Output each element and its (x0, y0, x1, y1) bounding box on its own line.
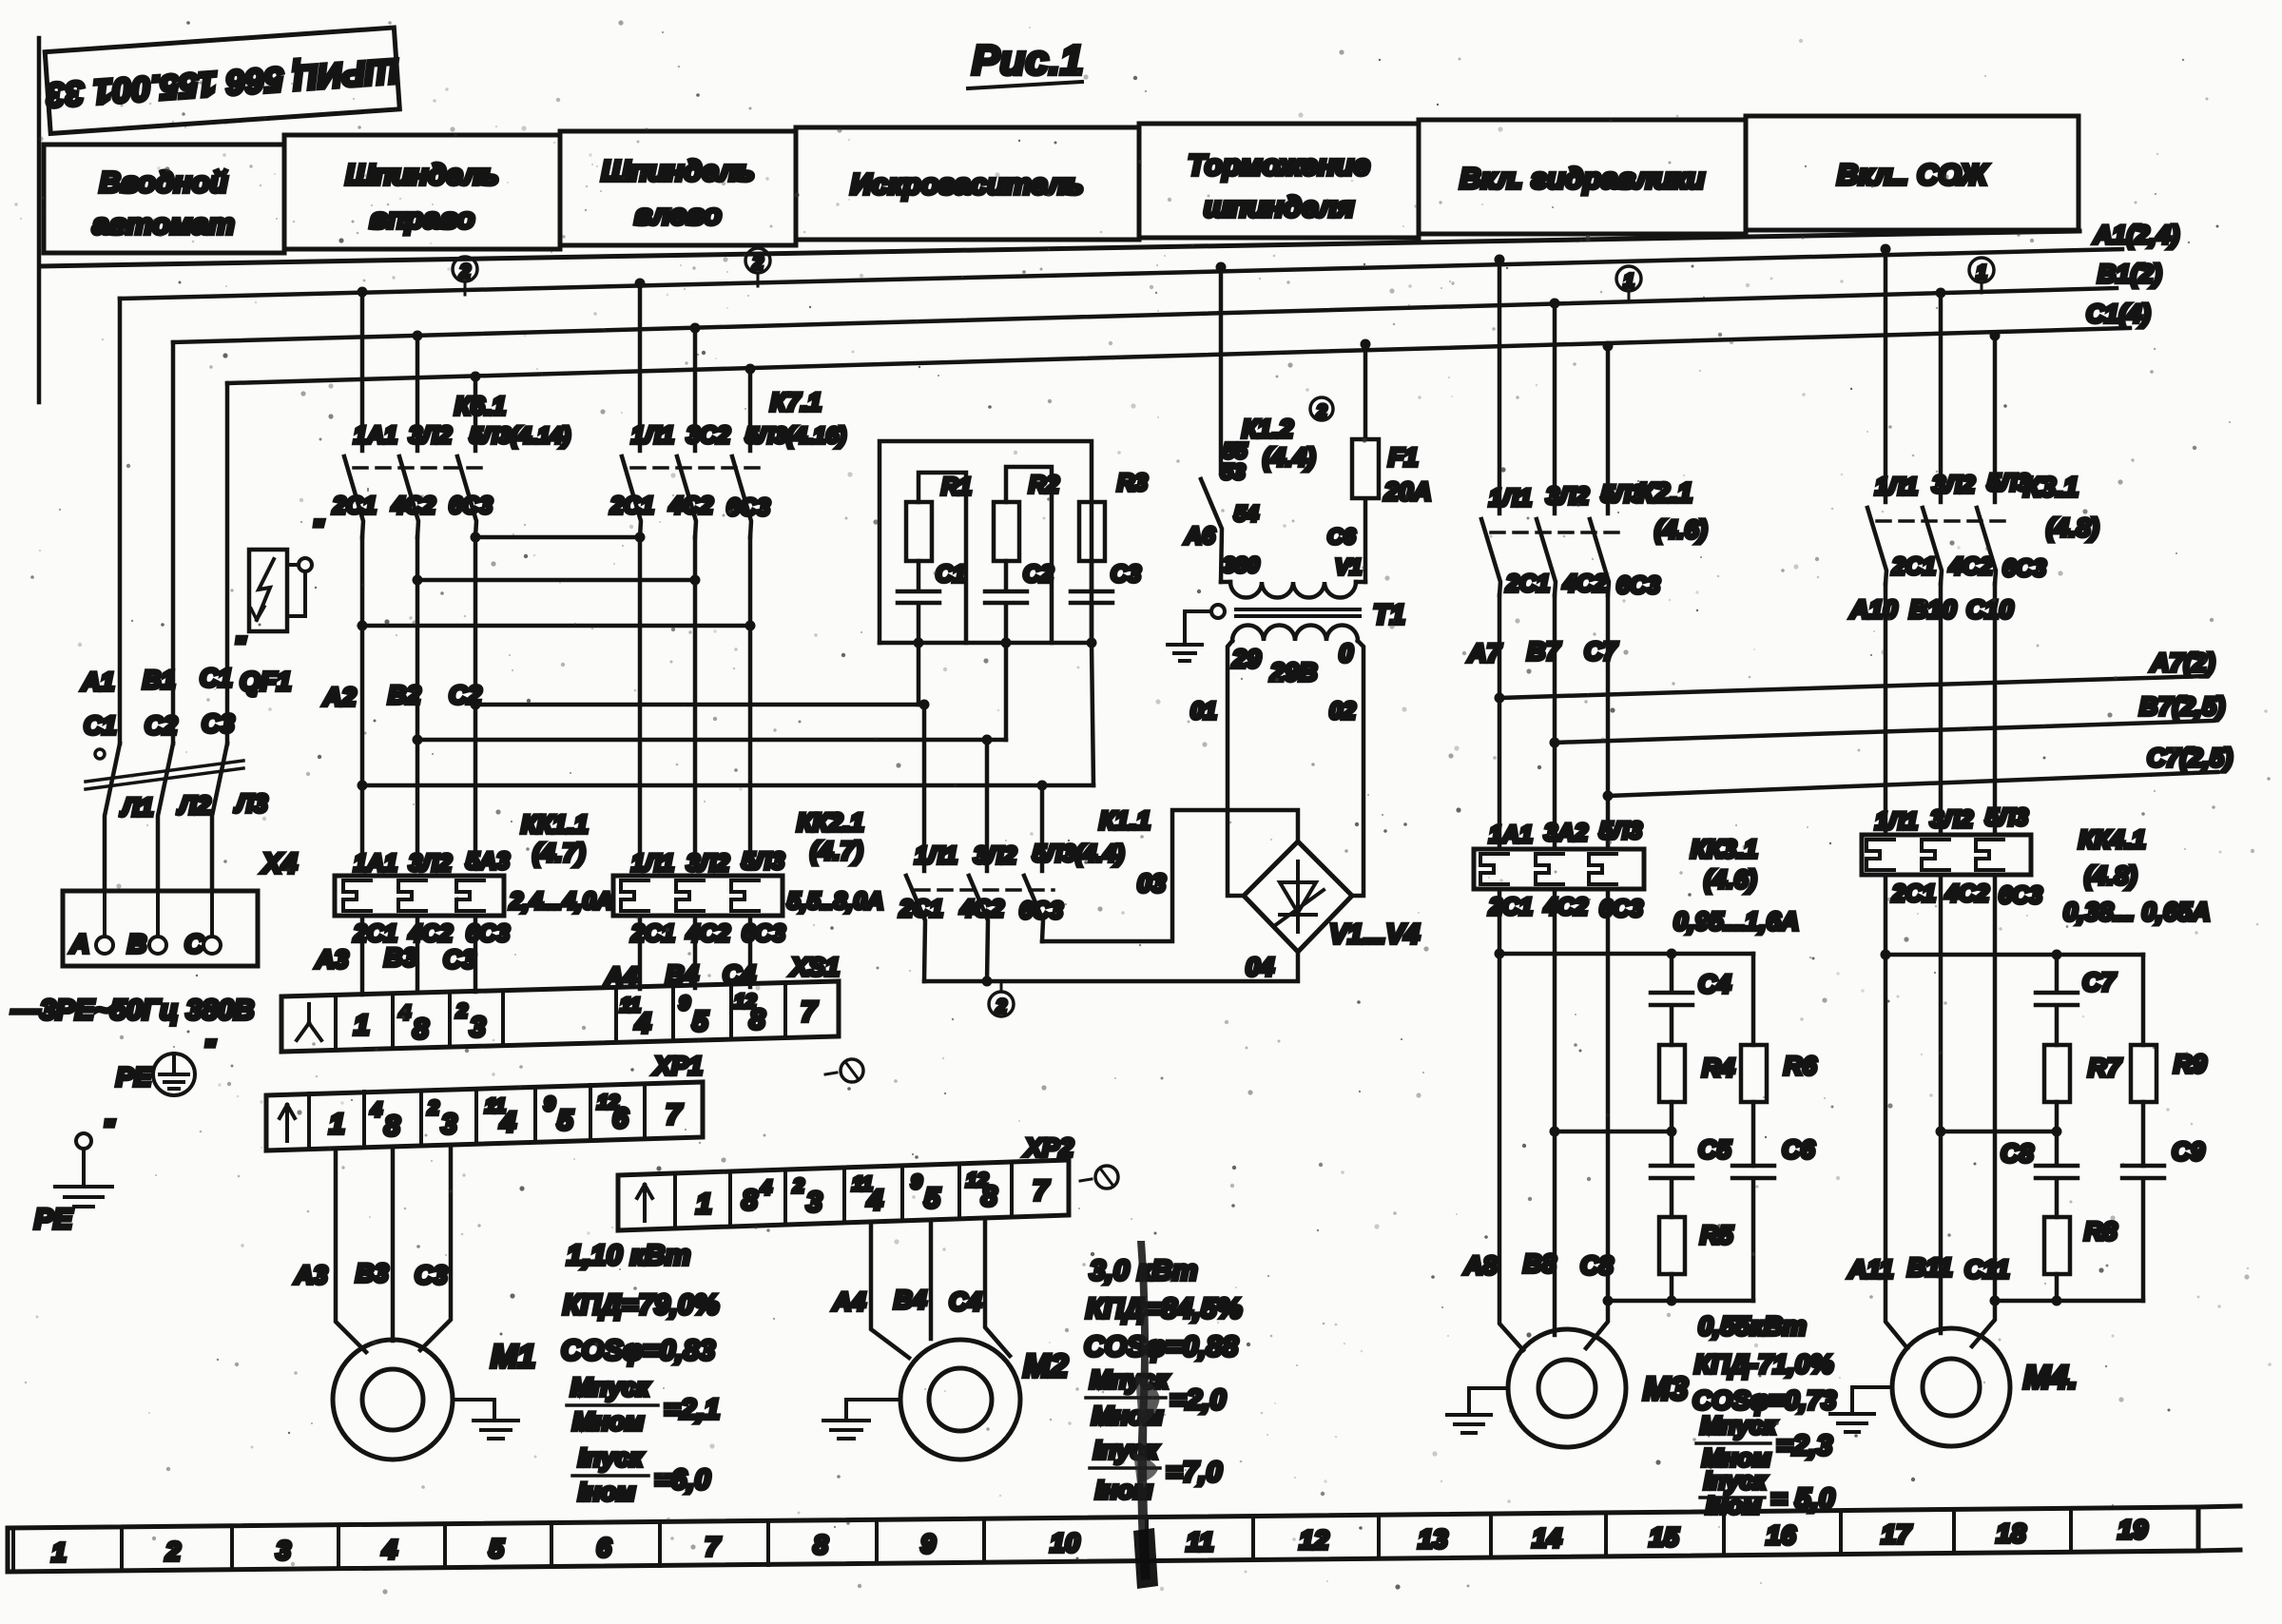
svg-text:13: 13 (1418, 1524, 1448, 1554)
svg-text:С1: С1 (84, 711, 117, 740)
svg-text:(4.8): (4.8) (2084, 861, 2137, 890)
svg-text:А3: А3 (294, 1261, 328, 1289)
svg-text:С10: С10 (1966, 595, 2014, 624)
svg-text:02: 02 (1329, 698, 1356, 725)
K6.1 labels (332, 392, 570, 519)
svg-text:ХР2: ХР2 (1023, 1133, 1073, 1162)
svg-text:С1(4): С1(4) (2086, 300, 2151, 328)
motor M2 ratings text (1084, 1255, 1242, 1504)
wire C3 leg down (1092, 643, 1093, 785)
node tap A1 for K6.1 (358, 287, 368, 298)
svg-text:Торможение: Торможение (1188, 148, 1370, 182)
svg-text:М2: М2 (1023, 1348, 1068, 1384)
svg-text:РЕ: РЕ (34, 1204, 73, 1235)
svg-text:5: 5 (924, 1183, 941, 1214)
svg-text:К6.1: К6.1 (454, 392, 506, 420)
wire secondary 02 to bridge (1352, 641, 1363, 896)
wire column K7 B (693, 537, 698, 869)
svg-text:С5: С5 (1698, 1135, 1731, 1164)
header box Шпиндель влево (560, 131, 796, 245)
svg-text:=2,3: =2,3 (1776, 1430, 1833, 1461)
svg-text:0,55кВт: 0,55кВт (1698, 1311, 1807, 1341)
ground at M4 (1830, 1387, 1892, 1432)
svg-text:9: 9 (920, 1529, 936, 1558)
capacitor C5 (1651, 1131, 1731, 1217)
connector XS1 (281, 953, 840, 1052)
motor M1 ratings text (561, 1240, 720, 1506)
svg-text:В2: В2 (388, 681, 421, 709)
bus row A7(2) (1495, 648, 2215, 704)
svg-text:С9: С9 (2172, 1137, 2205, 1166)
header box Шпиндель вправо (284, 135, 560, 249)
svg-text:5Л3(4.4): 5Л3(4.4) (1033, 841, 1124, 867)
motor M3 (1508, 1329, 1688, 1447)
node C1 leg on bottom rail (914, 638, 924, 648)
svg-text:R8: R8 (2084, 1217, 2118, 1246)
contact K1.2 (1184, 267, 1316, 582)
contactor K6.1 pole 1 (344, 292, 363, 537)
capacitor C1 (898, 561, 966, 643)
node tap A1 for K1.2 (1216, 262, 1227, 273)
svg-text:1А1: 1А1 (354, 850, 397, 877)
bus row B7(2,5) (1550, 692, 2226, 748)
resistor R9 (2131, 955, 2207, 1166)
resistor R5 (1659, 1217, 1733, 1301)
node B11 row2 (1936, 1127, 1946, 1137)
svg-text:А: А (69, 929, 89, 958)
transformer screen ground (1168, 605, 1225, 661)
svg-text:С2: С2 (145, 711, 178, 740)
contactor K7.1 pole 1 (622, 283, 641, 537)
svg-text:Рис.1: Рис.1 (972, 37, 1083, 84)
svg-text:5Л3: 5Л3 (1599, 818, 1642, 844)
thermal relay KK3.1 (1474, 818, 1799, 936)
svg-text:5: 5 (489, 1534, 504, 1563)
wire secondary 01 to bridge (1228, 641, 1244, 896)
svg-text:Х4: Х4 (261, 848, 298, 880)
svg-text:R1: R1 (941, 474, 972, 500)
node A11 row1 (1881, 950, 1891, 960)
contactor K1.1 pole 1 (906, 705, 925, 981)
svg-text:COSφ=0,88: COSφ=0,88 (1084, 1331, 1238, 1363)
contactor K6.1 pole 3 (457, 377, 476, 537)
svg-text:4: 4 (398, 1002, 411, 1024)
scan fold smear (1133, 1241, 1160, 1589)
svg-text:В4: В4 (894, 1286, 927, 1314)
circled ref 2 below 04 wire (989, 981, 1014, 1017)
wire row A2 to spark C3 leg (358, 781, 1094, 791)
node A8 row1 (1495, 949, 1505, 959)
wire phase A drop to QF1 (118, 299, 123, 744)
svg-text:РЕ: РЕ (116, 1062, 153, 1092)
svg-text:5Л3: 5Л3 (742, 848, 784, 875)
wire row C2 to spark C1 leg (471, 700, 930, 710)
wire M4 RC row1 (1886, 950, 2143, 960)
svg-text:Iпуск: Iпуск (578, 1443, 644, 1472)
svg-text:1,10 кВт: 1,10 кВт (567, 1240, 690, 1271)
svg-text:3Л2: 3Л2 (687, 850, 729, 877)
svg-text:С6: С6 (1327, 524, 1356, 549)
svg-text:С3: С3 (202, 709, 235, 738)
svg-text:6С3: 6С3 (1019, 898, 1063, 924)
svg-text:2С1: 2С1 (609, 493, 654, 519)
svg-text:3: 3 (276, 1536, 291, 1565)
ground at M1 (453, 1400, 518, 1439)
circled ref 2 on bus A1 right (745, 248, 770, 286)
svg-text:380: 380 (1223, 552, 1260, 577)
svg-text:(4.8): (4.8) (2046, 513, 2099, 542)
svg-text:1: 1 (1623, 271, 1634, 292)
svg-text:12: 12 (1299, 1525, 1329, 1555)
wire M4 RC row2 (1941, 1127, 2062, 1137)
svg-text:4: 4 (499, 1107, 516, 1138)
net labels A8 B8 C8 (1463, 1249, 1614, 1280)
svg-text:С3: С3 (415, 1261, 448, 1289)
svg-text:1Л1: 1Л1 (1875, 474, 1918, 500)
node tap C1 for K7.1 (745, 364, 756, 375)
wire KK2.1 outputs to XS1 (640, 916, 750, 989)
svg-text:R4: R4 (1702, 1054, 1735, 1082)
svg-text:4: 4 (760, 1177, 772, 1199)
wire KK1.1 outputs to XS1 (362, 916, 475, 995)
svg-text:16: 16 (1766, 1520, 1796, 1550)
drawing title Рис.1 (968, 37, 1083, 88)
svg-text:Мном: Мном (572, 1407, 644, 1436)
PE earth terminal symbol (116, 1034, 216, 1095)
svg-text:2: 2 (792, 1175, 804, 1197)
header box Вкл. СОЖ (1746, 116, 2079, 230)
svg-text:6С3: 6С3 (466, 920, 510, 947)
circled ref at XP2 (1080, 1166, 1118, 1189)
wire column A7 (1498, 595, 1502, 849)
wire C1 leg down (919, 643, 924, 705)
svg-text:8: 8 (813, 1530, 828, 1559)
node tap A1 for K3.1 (1881, 244, 1891, 255)
svg-text:15: 15 (1649, 1522, 1679, 1552)
motor M3 M4 ratings text (1692, 1311, 1837, 1519)
svg-text:КПД=79,0%: КПД=79,0% (563, 1289, 719, 1321)
node tap A1 for K7.1 (635, 279, 646, 289)
svg-text:=6,0: =6,0 (654, 1464, 711, 1496)
svg-text:М4.: М4. (2023, 1360, 2078, 1396)
svg-text:3А2: 3А2 (1544, 820, 1588, 846)
PE ground electrode (34, 1114, 115, 1235)
connector XP2 (618, 1133, 1073, 1230)
wire columns KK3.1 to M3 (1499, 889, 1608, 1350)
svg-text:03: 03 (1137, 869, 1166, 898)
bus B1 (173, 260, 2162, 342)
contactor K7.1 pole 3 (732, 369, 751, 537)
svg-text:3Л2: 3Л2 (1546, 483, 1589, 510)
svg-text:Вкл. гидравлики: Вкл. гидравлики (1460, 162, 1705, 195)
wire column K7 A (638, 537, 643, 869)
svg-text:1: 1 (1976, 262, 1986, 283)
svg-text:": " (203, 1034, 216, 1063)
svg-text:V1: V1 (1335, 554, 1362, 579)
svg-text:(4.7): (4.7) (532, 839, 586, 867)
capacitor C2 (985, 561, 1054, 643)
svg-text:В1(2): В1(2) (2098, 260, 2162, 288)
svg-text:5Л3: 5Л3 (1987, 470, 2030, 496)
svg-text:3Л2: 3Л2 (974, 842, 1016, 869)
svg-text:=7,0: =7,0 (1166, 1457, 1223, 1488)
wire column B10 (1939, 584, 1944, 835)
svg-text:1: 1 (51, 1537, 67, 1567)
K1.1 linkage dashed (916, 888, 1054, 892)
svg-text:9: 9 (911, 1171, 922, 1193)
svg-text:1Л1: 1Л1 (915, 842, 957, 869)
resistor R3 (1079, 470, 1148, 561)
contactor K3.1 pole 1 (1867, 249, 1886, 584)
capacitor C6 (1732, 1135, 1815, 1301)
svg-text:Мпуск: Мпуск (570, 1373, 650, 1402)
svg-text:Шпиндель: Шпиндель (345, 158, 498, 191)
svg-text:5А3: 5А3 (466, 848, 510, 875)
node tap B1 for K7.1 (690, 323, 701, 334)
svg-text:2С1: 2С1 (1891, 880, 1936, 907)
node tap C1 for K3.1 (1990, 331, 2001, 341)
wire 04 return (924, 952, 1298, 987)
circled ref at XS1 (825, 1059, 863, 1082)
svg-text:7: 7 (801, 996, 818, 1028)
svg-text:10: 10 (1050, 1528, 1080, 1557)
svg-text:А11: А11 (1847, 1255, 1894, 1284)
resistor R1 (906, 474, 972, 561)
svg-text:4С2: 4С2 (1562, 570, 1607, 597)
svg-text:3Л2: 3Л2 (1932, 472, 1975, 498)
svg-text:": " (312, 514, 324, 543)
svg-text:": " (103, 1114, 115, 1143)
svg-text:В11: В11 (1907, 1253, 1953, 1282)
svg-text:1: 1 (354, 1010, 370, 1041)
svg-text:Вводной: Вводной (99, 165, 227, 199)
svg-text:влево: влево (634, 198, 722, 231)
svg-text:Iном: Iном (1706, 1491, 1761, 1519)
terminal block X4 (63, 848, 298, 966)
contactor K7.1 pole 2 (677, 328, 696, 537)
svg-text:6С3: 6С3 (1999, 882, 2042, 909)
svg-text:(4.4): (4.4) (1263, 443, 1316, 472)
contactor K2.1 pole 3 (1590, 346, 1609, 595)
svg-text:С1: С1 (936, 561, 966, 588)
svg-text:4С2: 4С2 (686, 920, 730, 947)
node labels A1 B1 C1 QF1 (81, 664, 291, 740)
wire M3 RC row2 (1555, 1127, 1677, 1137)
svg-text:6С3: 6С3 (449, 493, 493, 519)
svg-text:8: 8 (742, 1185, 758, 1216)
svg-text:0,95...1,6А: 0,95...1,6А (1673, 907, 1799, 936)
svg-text:А1: А1 (81, 667, 115, 696)
wire M4 RC rail (1995, 1296, 2143, 1306)
svg-text:2С1: 2С1 (1488, 894, 1533, 920)
svg-text:54: 54 (1234, 501, 1259, 526)
svg-text:2С1: 2С1 (899, 896, 943, 922)
svg-text:4: 4 (634, 1008, 651, 1039)
svg-text:1Л1: 1Л1 (1875, 808, 1918, 835)
bridge rectifier V1...V4 (1244, 841, 1420, 952)
K3.1 linkage dashed (1877, 519, 2006, 523)
motor M4 (1892, 1328, 2078, 1446)
svg-text:4С2: 4С2 (391, 493, 435, 519)
svg-text:С11: С11 (1964, 1255, 2010, 1284)
svg-text:(4.6): (4.6) (1654, 515, 1708, 544)
svg-text:6С3: 6С3 (726, 494, 770, 521)
svg-text:20А: 20А (1383, 477, 1432, 506)
svg-text:1Л1: 1Л1 (1489, 485, 1532, 512)
left frame edge (37, 38, 42, 402)
transformer T1 secondary winding (1232, 600, 1405, 641)
svg-text:F1: F1 (1388, 443, 1419, 472)
svg-text:2: 2 (427, 1097, 439, 1119)
header box Вводной автомат (44, 145, 284, 253)
motor M2 (900, 1340, 1068, 1460)
header box Вкл. гидравлики (1419, 120, 1746, 234)
circled ref 1 on bus B1 right (1969, 258, 1994, 293)
svg-text:А3: А3 (315, 945, 349, 974)
node tap B1 for K6.1 (413, 331, 423, 341)
transformer T1 core (1236, 609, 1360, 616)
svg-text:5Л3: 5Л3 (1985, 804, 2028, 831)
svg-text:3: 3 (470, 1012, 486, 1043)
svg-text:2: 2 (751, 253, 763, 274)
resistor R6 (1741, 954, 1817, 1166)
capacitor C3 (1071, 561, 1141, 643)
svg-text:6: 6 (596, 1533, 611, 1562)
svg-text:К1.1: К1.1 (1099, 806, 1151, 835)
svg-text:29В: 29В (1269, 658, 1318, 686)
wire column K7 C (748, 537, 753, 869)
net labels A3 B3 C3 (315, 943, 476, 974)
svg-text:2С1: 2С1 (1891, 553, 1936, 580)
connector XP1 (266, 1052, 703, 1150)
breaker QF1 blades (86, 744, 243, 891)
svg-text:18: 18 (1996, 1518, 2026, 1548)
svg-text:2С1: 2С1 (332, 493, 377, 519)
svg-text:А1(2,4): А1(2,4) (2093, 221, 2179, 249)
thermal relay KK2.1 (613, 808, 883, 947)
bottom zone strip (8, 1506, 2240, 1572)
svg-text:1: 1 (696, 1189, 712, 1220)
wire column B7 (1553, 595, 1557, 849)
header box Торможение шпинделя (1139, 124, 1419, 238)
svg-text:53: 53 (1221, 459, 1246, 484)
spark suppressor enclosure (880, 441, 1093, 643)
svg-text:0,38... 0,65А: 0,38... 0,65А (2063, 898, 2211, 926)
svg-text:": " (234, 631, 246, 660)
resistor R4 (1659, 1045, 1735, 1131)
svg-text:Мпуск: Мпуск (1090, 1365, 1170, 1394)
wire M3 RC rail (1608, 1296, 1753, 1306)
svg-text:шпинделя: шпинделя (1204, 190, 1354, 223)
inner frame branch 1 (919, 473, 966, 643)
svg-text:6С3: 6С3 (1616, 572, 1660, 599)
node tap B1 for K2.1 (1550, 299, 1560, 309)
secondary labels (1190, 639, 1356, 725)
svg-text:R6: R6 (1784, 1052, 1817, 1080)
bus A1 (120, 221, 2179, 299)
svg-text:V1...V4: V1...V4 (1329, 919, 1420, 950)
K7.1 labels (609, 388, 846, 521)
svg-text:19: 19 (2118, 1515, 2148, 1544)
svg-text:2: 2 (455, 1000, 468, 1022)
inner frame branch 2 (1006, 467, 1052, 643)
wire column C2 (474, 537, 478, 869)
contactor K2.1 pole 2 (1537, 303, 1556, 595)
svg-text:5Л3(4.16): 5Л3(4.16) (745, 423, 846, 449)
svg-text:R9: R9 (2174, 1050, 2207, 1078)
svg-text:5Л3(4.14): 5Л3(4.14) (470, 423, 570, 449)
net labels A4 B4 C4 above XS1 (604, 960, 756, 991)
wire phase B drop to QF1 (171, 342, 176, 744)
svg-text:COSφ=0,83: COSφ=0,83 (561, 1335, 715, 1366)
svg-text:7: 7 (705, 1532, 721, 1561)
header underline (40, 231, 2079, 266)
wire M3 RC row1 (1499, 949, 1753, 959)
svg-text:М1: М1 (491, 1339, 535, 1375)
svg-text:9: 9 (544, 1093, 555, 1115)
svg-text:4С2: 4С2 (1948, 553, 1993, 580)
contactor K2.1 pole 1 (1481, 260, 1500, 595)
svg-text:6С3: 6С3 (2002, 555, 2046, 582)
svg-text:С4: С4 (1698, 970, 1731, 998)
svg-text:С1: С1 (200, 664, 233, 692)
svg-text:2: 2 (995, 996, 1006, 1017)
net labels A2 B2 C2 (322, 681, 482, 711)
svg-text:С7(2,5): С7(2,5) (2147, 744, 2233, 772)
svg-text:(4.7): (4.7) (810, 837, 863, 865)
svg-text:А10: А10 (1849, 595, 1898, 624)
wire XP2 to M2 leads (871, 1219, 1010, 1358)
circled ref 1 on bus B1 (1616, 266, 1641, 302)
node tap A1 for K2.1 (1495, 255, 1505, 265)
svg-text:С3: С3 (443, 945, 476, 974)
svg-text:3: 3 (441, 1109, 457, 1140)
svg-text:3Л2: 3Л2 (409, 850, 452, 877)
contactor K3.1 pole 3 (1977, 336, 1996, 584)
header box Искрогаситель (796, 127, 1139, 240)
svg-text:А8: А8 (1463, 1251, 1498, 1280)
svg-text:В10: В10 (1909, 595, 1957, 624)
title stamp box (rotated, mirrored text) (43, 28, 401, 134)
svg-text:1А1: 1А1 (354, 422, 397, 449)
wire column A10 (1884, 584, 1888, 835)
svg-text:Вкл.. СОЖ: Вкл.. СОЖ (1837, 158, 1989, 191)
net labels A3 B3 C3 at motor (294, 1259, 448, 1289)
svg-text:4: 4 (381, 1535, 397, 1564)
svg-text:КК1.1: КК1.1 (521, 810, 589, 839)
svg-text:Л3: Л3 (234, 789, 268, 818)
capacitor C7 (2036, 955, 2117, 1045)
wire column A2 (360, 537, 365, 869)
svg-text:14: 14 (1532, 1523, 1562, 1553)
resistor R7 (2044, 1045, 2122, 1131)
node tap C1 for K2.1 (1603, 341, 1614, 352)
svg-text:4С2: 4С2 (1944, 880, 1989, 907)
contactor K6.1 pole 2 (399, 336, 418, 537)
svg-text:1: 1 (329, 1109, 345, 1140)
svg-text:К2.1: К2.1 (1637, 478, 1692, 509)
svg-text:01: 01 (1190, 698, 1217, 725)
wire phase C drop to QF1 (225, 383, 230, 744)
svg-text:вправо: вправо (370, 202, 475, 235)
bus row C7(2,5) (1603, 744, 2234, 802)
wire step B-B (413, 575, 701, 586)
wire C2 leg down (1004, 643, 1009, 740)
bus C1 (227, 300, 2151, 383)
svg-text:R3: R3 (1117, 470, 1148, 496)
svg-text:5: 5 (692, 1006, 709, 1037)
svg-text:1Л1: 1Л1 (631, 850, 674, 877)
